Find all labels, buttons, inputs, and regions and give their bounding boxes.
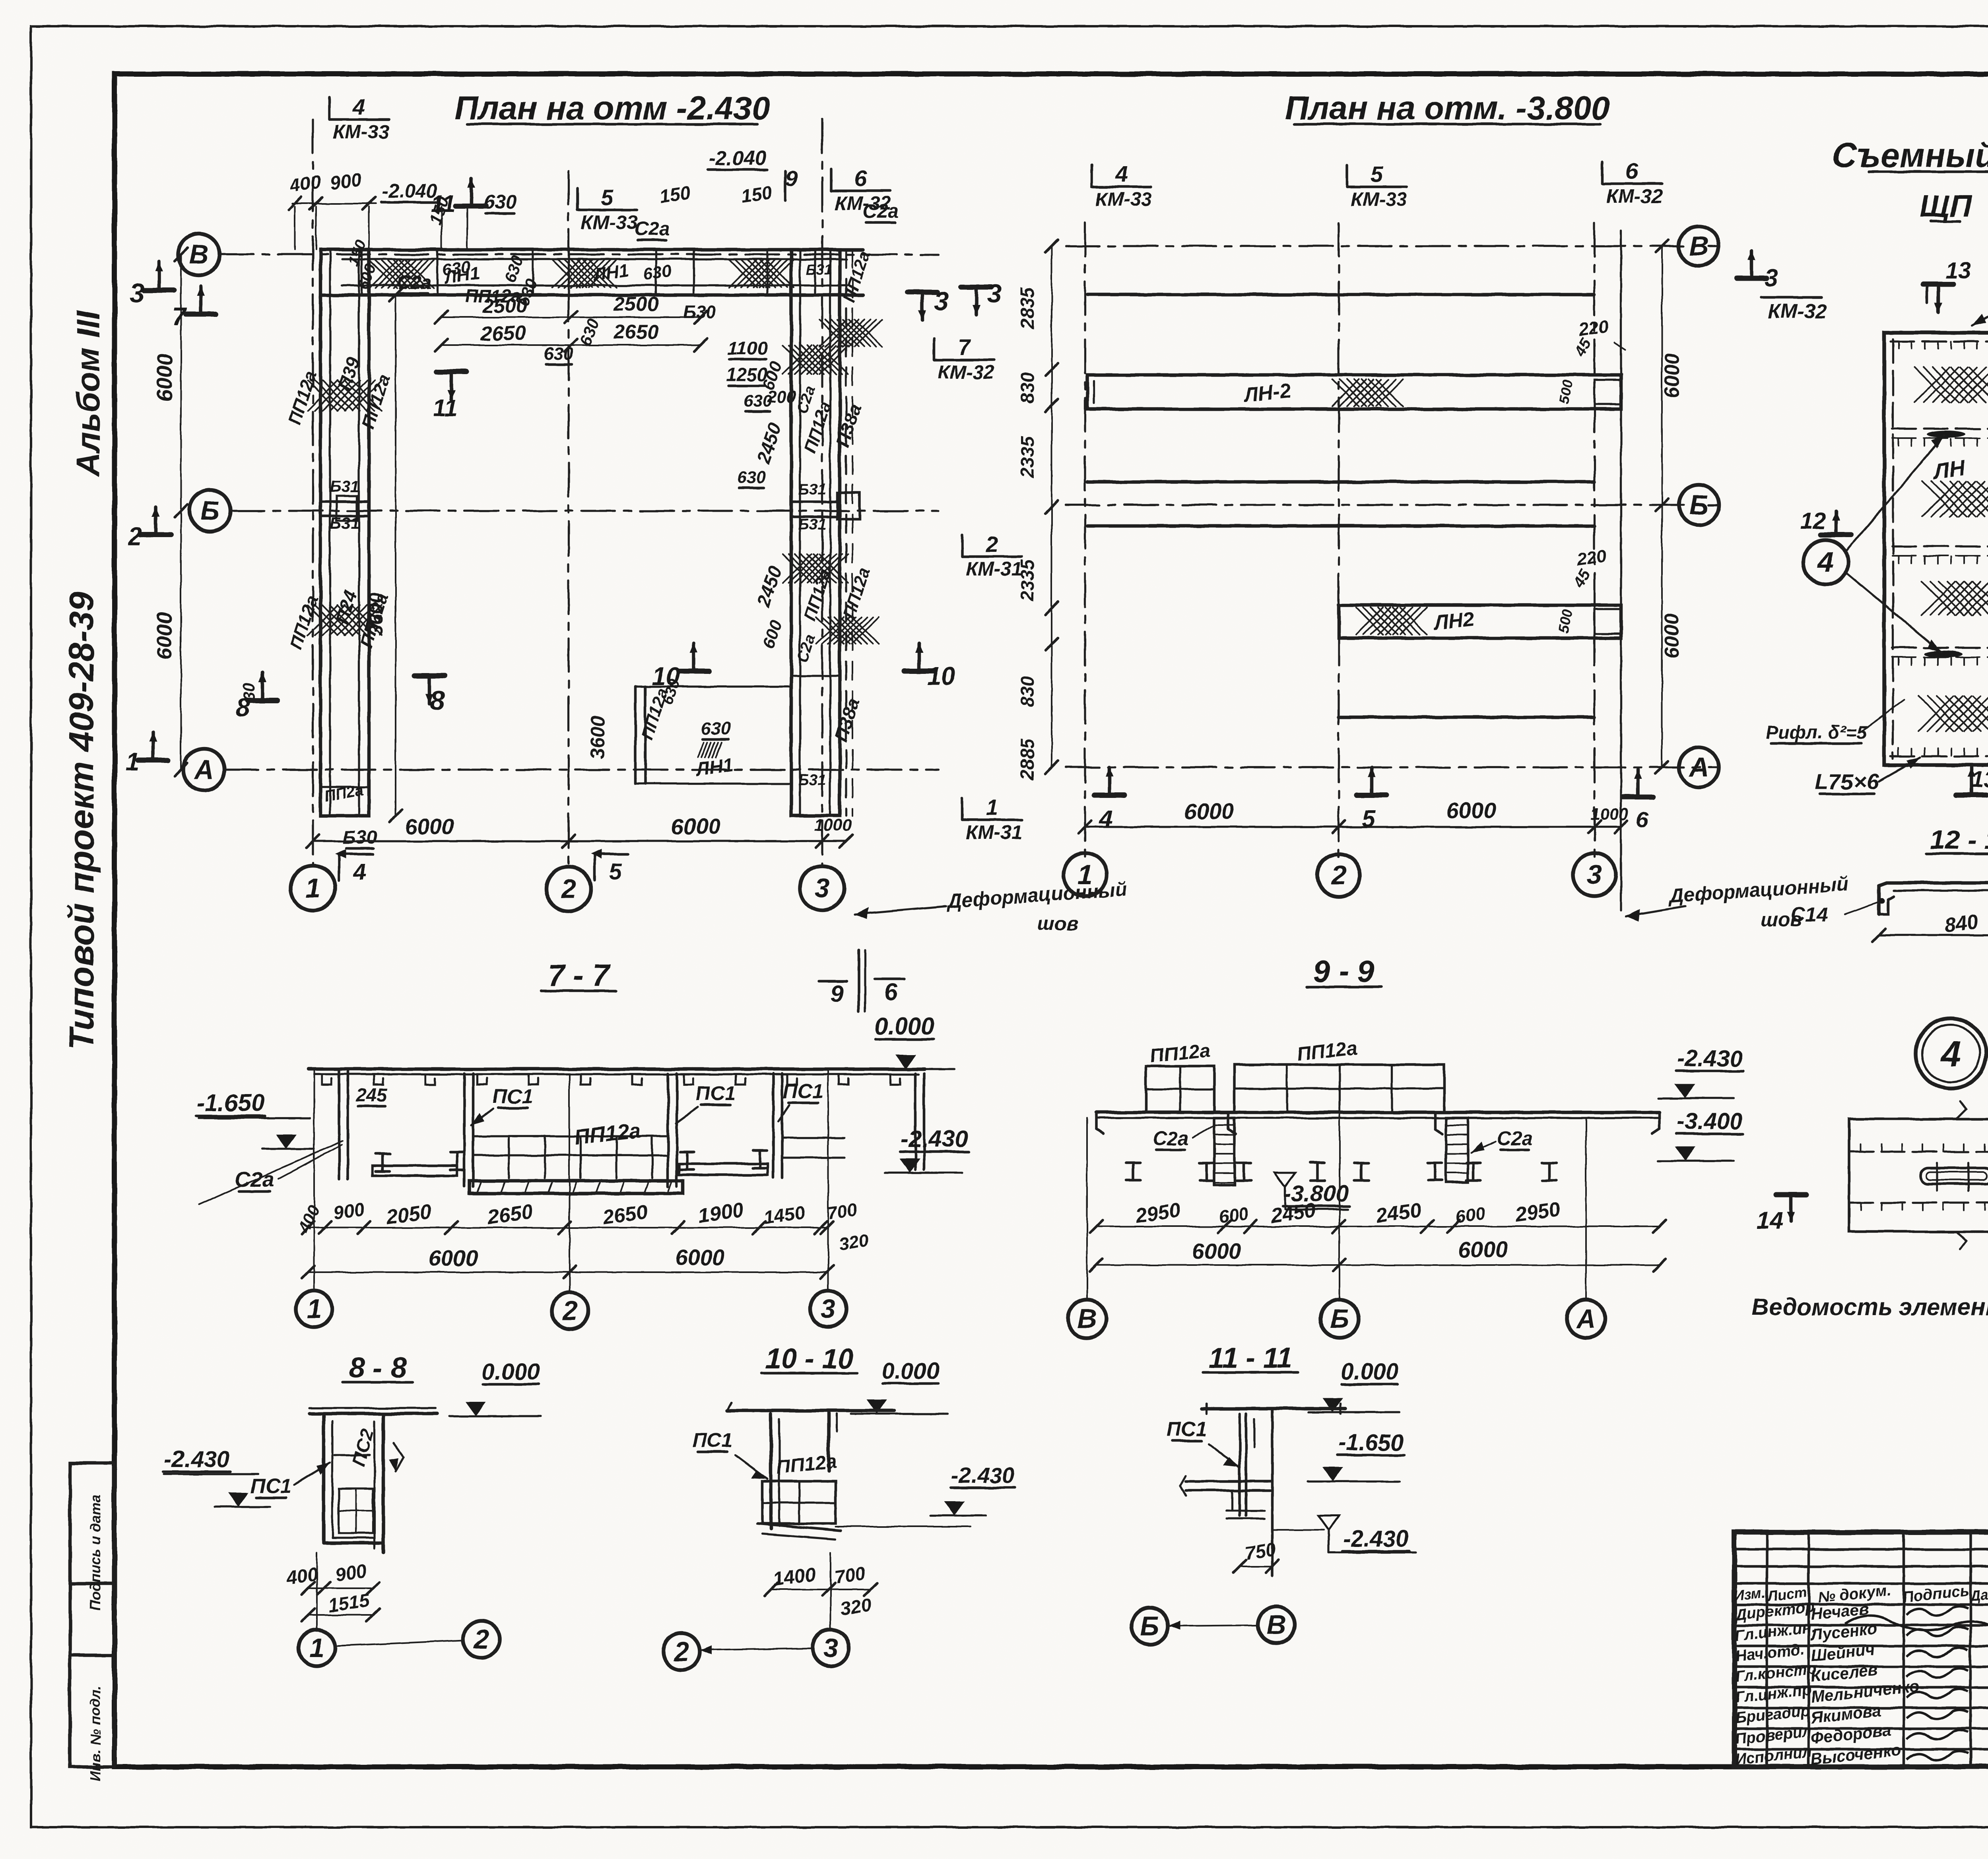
shield rib ticks bbox=[1899, 342, 1988, 349]
left wall hatch patch 1 bbox=[308, 380, 382, 411]
9-9 dimension 6000s bbox=[1096, 1264, 1660, 1266]
top wall dimension rows 2500/2650 bbox=[441, 316, 701, 318]
title block outline bbox=[1734, 1532, 1988, 1767]
plan1 section cut marks 11 11 bbox=[456, 204, 486, 209]
11-11 ground line bbox=[1202, 1407, 1345, 1411]
9-9 plate stack left bbox=[1146, 1066, 1214, 1112]
9-9 I-beam symbols bbox=[1126, 1162, 1140, 1164]
plan2 grid axis line 3 bbox=[1593, 223, 1595, 859]
plan1 grid axis row В bbox=[219, 253, 938, 255]
8-8 channel walls bbox=[322, 1416, 326, 1543]
plan1 top wall panels bbox=[320, 248, 863, 252]
plan1 bottom dimension line bbox=[313, 840, 846, 842]
top wall hatch patches bbox=[369, 260, 434, 288]
7-7 dimension 6000s bbox=[308, 1271, 827, 1273]
plan2 axis circles right bbox=[1679, 226, 1719, 266]
plan2 axis circles bottom bbox=[1064, 853, 1107, 896]
document side strip bottom left bbox=[70, 1463, 115, 1767]
7-7 axis circles bbox=[313, 1069, 315, 1290]
10-10 dims bbox=[771, 1589, 871, 1590]
plan2 row axis А bbox=[1066, 766, 1718, 768]
plan2 mid beam lines bbox=[1087, 480, 1594, 484]
title block signature table bbox=[1766, 1532, 1769, 1767]
8-8 axis circles bbox=[316, 1552, 318, 1630]
node 4 section marks 14 bbox=[1776, 1192, 1806, 1197]
plan2 left dims bbox=[1051, 246, 1052, 767]
11-11 axis circles bbox=[1132, 1608, 1168, 1644]
plan1 grid axis line 1 bbox=[312, 119, 314, 866]
plan2 bottom flags bbox=[1094, 793, 1124, 798]
shield outline bbox=[1884, 333, 1988, 765]
8-8 dims bbox=[308, 1587, 373, 1589]
11-11 walls bbox=[1239, 1414, 1241, 1516]
11-11 slab left bbox=[1186, 1480, 1272, 1483]
9-9 dimension chain bbox=[1096, 1226, 1660, 1227]
plan1 flags bbox=[329, 118, 389, 121]
plan1 grid axis line 2 bbox=[567, 171, 569, 866]
left wall hatch patch 2 bbox=[308, 605, 382, 635]
node 4 break marks bbox=[1956, 1101, 1966, 1119]
10-10 plate stack bbox=[762, 1481, 836, 1523]
plan1 wall dim 3600 bbox=[395, 295, 396, 816]
8-8 inner panel bbox=[339, 1488, 373, 1533]
9-9 axis circles bbox=[1086, 1118, 1088, 1299]
plan1 grid axis line 3 bbox=[821, 119, 823, 866]
7-7 top slab line bbox=[308, 1067, 924, 1071]
plan2 beam line top bbox=[1087, 293, 1594, 297]
plan2 row axis В bbox=[1066, 245, 1718, 247]
shield dividers bbox=[1892, 427, 1988, 429]
axis circle 3 bbox=[800, 866, 845, 910]
shield hatch patches bbox=[1914, 367, 1988, 402]
node 4 circle bbox=[1916, 1019, 1986, 1089]
plan2 grid axis line 1 bbox=[1084, 223, 1086, 859]
reference 3 КМ-32 right of plan2 bbox=[1736, 276, 1767, 281]
12-12 dim 840 bbox=[1879, 934, 1988, 936]
8-8 ground line bbox=[310, 1412, 437, 1416]
plan1 right side reference marks bbox=[907, 290, 938, 295]
plan2 row axis Б bbox=[1066, 504, 1718, 506]
plan2 grid axis line 2 bbox=[1338, 223, 1340, 859]
plan2 flags top bbox=[1092, 186, 1151, 188]
plan1 top small dim line 400/900 bbox=[292, 203, 376, 204]
plan2 beam ЛН-2 upper bbox=[1087, 375, 1621, 409]
right wall lower pilaster bbox=[634, 687, 637, 784]
shield section marks 13 bbox=[1923, 282, 1953, 287]
plan1 section cut marks 10 10 bbox=[679, 669, 709, 674]
plan2 right dims 6000 bbox=[1661, 246, 1663, 767]
10-10 axis circles bbox=[830, 1552, 831, 1630]
plan2 beam line bottom bbox=[1339, 716, 1594, 719]
12-12 channel profile bbox=[1879, 883, 1988, 914]
shield node circle 4 bbox=[1804, 540, 1848, 584]
shield section marks 12 bbox=[1821, 532, 1851, 538]
axis circle 1 bbox=[291, 866, 335, 910]
7-7 left pit wall bbox=[338, 1069, 341, 1179]
deformation joint dashed line plan1 bbox=[845, 250, 847, 816]
axis circle А bbox=[183, 749, 225, 790]
plan1 section cut marks bottom 8 8 bbox=[247, 698, 278, 703]
plan2 beam ЛН2 lower bbox=[1339, 605, 1621, 638]
node 4 plate plan bbox=[1849, 1119, 1988, 1232]
plan1 grid axis row А bbox=[225, 768, 938, 770]
axis circle В bbox=[178, 234, 219, 275]
10-10 walls bbox=[769, 1414, 773, 1529]
11-11 dim 750 bbox=[1240, 1566, 1272, 1567]
9-9 slab line bbox=[1096, 1111, 1660, 1114]
10-10 ground line bbox=[727, 1409, 895, 1413]
7-7 dimension chain bbox=[308, 1227, 827, 1228]
plan1 grid axis row Б bbox=[231, 510, 938, 512]
plan1 bottom flag 5 bbox=[593, 854, 596, 881]
7-7 centre pit bbox=[463, 1073, 466, 1187]
right wall hatch patches bbox=[783, 345, 848, 374]
plan2 deformation joint line bbox=[1620, 231, 1622, 910]
plan1 section cut marks left bbox=[144, 288, 174, 293]
joint marks 9 and 6 below plan1 bbox=[858, 950, 860, 1012]
plan1 left dimension line bbox=[180, 254, 182, 770]
plan1 bottom flag 4 bbox=[338, 854, 340, 881]
plan1 left wall panels bbox=[320, 250, 369, 816]
plan1 right wall panels bbox=[791, 250, 840, 816]
7-7 right pit bbox=[772, 1073, 775, 1178]
9-9 plate stack middle bbox=[1235, 1065, 1444, 1112]
shield slot marks bbox=[1927, 431, 1965, 438]
7-7 hanger clips under slab bbox=[322, 1074, 900, 1085]
7-7 left slab bbox=[373, 1166, 457, 1176]
title block signatures squiggles bbox=[1906, 1606, 1968, 1615]
node 4 slot bbox=[1920, 1168, 1988, 1184]
axis circle 2 bbox=[546, 867, 591, 911]
9-9 ladder hatch columns bbox=[1214, 1118, 1235, 1185]
plan2 bottom dimension line bbox=[1085, 826, 1621, 828]
axis circle Б bbox=[189, 490, 231, 532]
